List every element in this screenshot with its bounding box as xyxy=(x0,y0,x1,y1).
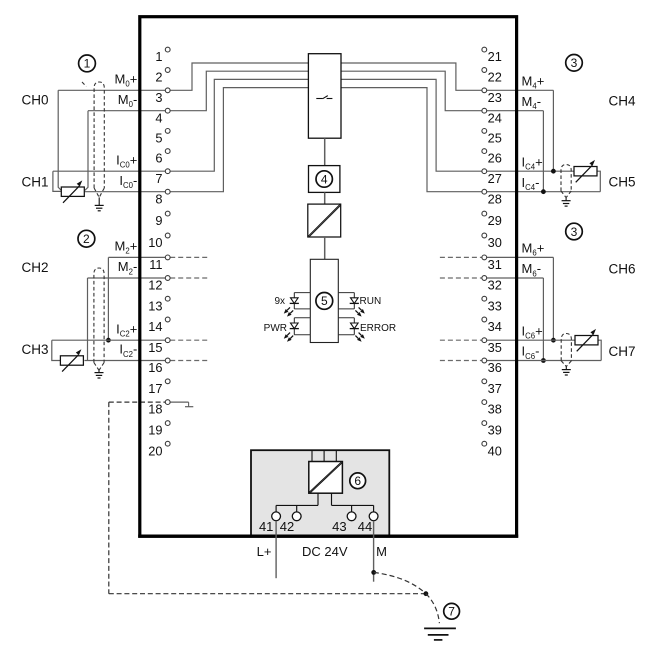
label DC 24V xyxy=(302,544,348,559)
wire M6- vertical to IC6- xyxy=(542,278,544,361)
wire M4- vertical to IC4- xyxy=(542,111,544,192)
circled note 2 xyxy=(78,230,95,247)
terminal 7 xyxy=(155,169,170,186)
wire M2- with dashed stub xyxy=(88,277,210,279)
svg-text:20: 20 xyxy=(148,443,162,458)
label CH1 xyxy=(22,174,49,189)
label IC6+ xyxy=(522,323,543,340)
terminal 28 xyxy=(482,189,502,206)
svg-text:41: 41 xyxy=(259,519,273,534)
module enclosure border xyxy=(140,17,517,536)
svg-text:CH4: CH4 xyxy=(609,93,636,108)
shield CH2/CH3 with ground xyxy=(94,268,104,378)
junction ground bus xyxy=(424,591,429,596)
svg-text:2: 2 xyxy=(83,232,90,246)
svg-text:2: 2 xyxy=(155,70,162,85)
wire terminal 18 dashed ground lead xyxy=(109,401,168,403)
svg-text:13: 13 xyxy=(148,298,162,313)
junction M4+/IC4+ xyxy=(551,169,556,174)
wire M2- vertical to IC2- xyxy=(87,278,89,361)
terminal 25 xyxy=(482,129,502,146)
terminal 2 xyxy=(155,68,170,85)
junction M2+/IC2+ xyxy=(106,338,111,343)
wire CH5 return loop xyxy=(597,171,600,192)
terminal 44 xyxy=(358,512,378,534)
wire IC2+ with dashed stub xyxy=(52,339,210,341)
svg-text:31: 31 xyxy=(488,257,502,272)
terminal 34 xyxy=(482,317,502,334)
svg-text:3: 3 xyxy=(155,90,162,105)
wire CH3 IC2+ sensor loop xyxy=(52,340,61,360)
svg-text:1: 1 xyxy=(155,49,162,64)
terminal 9 xyxy=(155,211,170,228)
wire M2+ with dashed stub xyxy=(108,256,209,258)
circled note 1 xyxy=(79,55,96,72)
terminal 23 xyxy=(482,88,502,105)
circled label 6 xyxy=(350,473,366,489)
LED ERROR xyxy=(338,318,365,342)
terminal 1 xyxy=(155,47,170,64)
wire IC0- terminal to multiplexer (lane 4 left) xyxy=(85,88,309,192)
svg-text:23: 23 xyxy=(488,90,502,105)
wire M4- multiplexer to terminal (lane 2 right) xyxy=(341,71,543,111)
wire M0+ terminal to multiplexer (lane 1 left) xyxy=(58,63,308,90)
terminal 6 xyxy=(155,149,170,166)
terminal 11 xyxy=(149,255,170,272)
terminal 19 xyxy=(148,421,170,438)
svg-text:32: 32 xyxy=(488,278,502,293)
svg-text:M2-: M2- xyxy=(118,259,138,276)
terminal 30 xyxy=(482,233,502,250)
module border bottom edge xyxy=(138,535,518,538)
terminal 16 xyxy=(148,358,170,375)
wire CH0 M0+ sensor lead xyxy=(58,90,61,190)
label M0- xyxy=(118,92,138,109)
svg-text:CH1: CH1 xyxy=(22,174,49,189)
terminal 32 xyxy=(482,276,502,293)
terminal 10 xyxy=(148,233,170,250)
svg-text:M6-: M6- xyxy=(522,261,542,278)
dashed ground bus vertical xyxy=(108,402,110,594)
DC/DC converter U3 xyxy=(309,450,343,493)
terminal 18 xyxy=(148,400,170,417)
label L+ xyxy=(257,544,272,559)
terminal 43 xyxy=(332,512,356,534)
LED PWR xyxy=(284,318,311,342)
wire A/D converter to block 5 xyxy=(324,237,326,259)
multiplexer U1 xyxy=(308,54,341,139)
svg-text:25: 25 xyxy=(488,131,502,146)
svg-text:5: 5 xyxy=(155,131,162,146)
label IC6- xyxy=(522,344,540,361)
A/D converter U2 xyxy=(308,204,341,237)
shield CH4/CH5 with ground xyxy=(561,165,571,207)
label M xyxy=(376,544,387,559)
LED group 9x xyxy=(284,293,311,317)
label IC4- xyxy=(522,175,540,192)
label M4+ xyxy=(522,74,545,91)
svg-text:36: 36 xyxy=(488,360,502,375)
label PWR xyxy=(264,323,287,334)
svg-text:4: 4 xyxy=(155,110,162,125)
switch contact inside multiplexer xyxy=(316,96,332,99)
wire IC6+ with dashed stub xyxy=(440,339,575,341)
wire M6+ with dashed stub xyxy=(440,256,554,258)
svg-text:29: 29 xyxy=(488,213,502,228)
svg-text:27: 27 xyxy=(488,171,502,186)
terminal 14 xyxy=(148,317,170,334)
svg-text:5: 5 xyxy=(321,294,328,308)
circled label 7 xyxy=(444,603,460,619)
label M6- xyxy=(522,261,542,278)
terminal 15 xyxy=(148,338,170,355)
wire IC0+ terminal to multiplexer (lane 3 left) xyxy=(53,79,309,171)
svg-text:34: 34 xyxy=(488,319,502,334)
circled note 3 lower xyxy=(566,223,583,240)
svg-text:7: 7 xyxy=(448,605,455,619)
label RUN xyxy=(360,296,382,307)
shield CH6/CH7 with ground xyxy=(561,334,571,376)
svg-text:40: 40 xyxy=(488,443,502,458)
svg-text:44: 44 xyxy=(358,519,372,534)
junction M6+/IC6+ xyxy=(551,338,556,343)
wire IC2- with dashed stub xyxy=(84,360,209,362)
svg-text:18: 18 xyxy=(148,402,162,417)
junction M wire to ground bus xyxy=(371,570,376,575)
svg-text:L+: L+ xyxy=(257,544,272,559)
svg-text:4: 4 xyxy=(321,172,328,186)
label ERROR xyxy=(360,323,396,334)
label CH7 xyxy=(609,344,636,359)
power supply section (gray box) xyxy=(251,450,389,536)
terminal 13 xyxy=(148,296,170,313)
svg-text:43: 43 xyxy=(332,519,346,534)
svg-text:10: 10 xyxy=(148,235,162,250)
svg-text:39: 39 xyxy=(488,423,502,438)
label M2+ xyxy=(115,239,138,256)
terminal 39 xyxy=(482,421,502,438)
svg-text:M: M xyxy=(376,544,387,559)
label M6+ xyxy=(522,241,545,258)
terminal 4 xyxy=(155,108,170,125)
svg-text:37: 37 xyxy=(488,381,502,396)
svg-text:26: 26 xyxy=(488,151,502,166)
terminal 35 xyxy=(482,338,502,355)
resistor CH7 sensor xyxy=(575,329,598,351)
terminal 31 xyxy=(482,255,502,272)
svg-text:CH5: CH5 xyxy=(609,174,636,189)
terminal 33 xyxy=(482,296,502,313)
wire multiplexer to block 4 xyxy=(324,138,326,165)
wire IC6- with dashed stub xyxy=(440,360,601,362)
terminal 40 xyxy=(482,441,502,458)
terminal 38 xyxy=(482,400,502,417)
wire CH1 IC0+ sensor loop xyxy=(53,171,61,191)
svg-text:19: 19 xyxy=(148,423,162,438)
svg-text:PWR: PWR xyxy=(264,323,287,334)
terminal 8 xyxy=(155,189,170,206)
svg-text:DC 24V: DC 24V xyxy=(302,544,348,559)
svg-text:6: 6 xyxy=(354,474,361,488)
terminal 27 xyxy=(482,169,502,186)
shield CH0/CH1 with ground xyxy=(82,82,104,211)
label CH3 xyxy=(22,342,49,357)
svg-text:22: 22 xyxy=(488,70,502,85)
terminal 42 xyxy=(280,512,301,534)
label IC0- xyxy=(119,173,137,190)
wire IC4- multiplexer to terminal (lane 4 right) xyxy=(341,88,600,192)
wire L+ supply xyxy=(275,521,277,579)
svg-text:M4-: M4- xyxy=(522,94,542,111)
label IC0+ xyxy=(116,152,137,169)
terminal 5 xyxy=(155,129,170,146)
svg-text:9x: 9x xyxy=(274,296,285,307)
svg-text:CH6: CH6 xyxy=(609,262,636,277)
label CH4 xyxy=(609,93,636,108)
terminal 26 xyxy=(482,149,502,166)
wire DC/DC to terminals 43/44 xyxy=(332,493,374,512)
label CH0 xyxy=(22,92,49,107)
svg-text:3: 3 xyxy=(571,56,578,70)
terminal 20 xyxy=(148,441,170,458)
label M4- xyxy=(522,94,542,111)
terminal 41 xyxy=(259,512,281,534)
LED RUN xyxy=(338,293,365,317)
svg-text:38: 38 xyxy=(488,402,502,417)
label CH6 xyxy=(609,262,636,277)
resistor CH3 sensor xyxy=(60,349,83,371)
label CH2 xyxy=(22,260,49,275)
wire terminal 18 internal stub with chassis mark xyxy=(170,402,193,407)
svg-text:30: 30 xyxy=(488,235,502,250)
svg-text:6: 6 xyxy=(155,151,162,166)
label M0+ xyxy=(115,72,138,89)
terminal 37 xyxy=(482,379,502,396)
svg-text:14: 14 xyxy=(148,319,162,334)
wire DC/DC to terminals 41/42 xyxy=(276,493,318,512)
svg-text:35: 35 xyxy=(488,340,502,355)
svg-text:ERROR: ERROR xyxy=(360,323,396,334)
wire M0- terminal to multiplexer (lane 2 left) xyxy=(88,71,308,111)
svg-text:CH7: CH7 xyxy=(609,344,636,359)
earth ground symbol xyxy=(424,628,456,640)
junction M6-/IC6- xyxy=(541,358,546,363)
svg-text:24: 24 xyxy=(488,110,502,125)
block 4 (ADC control) xyxy=(309,166,340,193)
svg-text:1: 1 xyxy=(84,57,91,71)
wire M6- with dashed stub xyxy=(440,277,544,279)
terminal 24 xyxy=(482,108,502,125)
resistor CH5 sensor xyxy=(574,160,597,182)
terminal 3 xyxy=(155,88,170,105)
block 5 (backplane interface) xyxy=(310,259,338,342)
terminal 21 xyxy=(482,47,502,64)
svg-text:3: 3 xyxy=(571,225,578,239)
terminal 36 xyxy=(482,358,502,375)
wire M4+ multiplexer to terminal (lane 1 right) xyxy=(341,63,553,90)
svg-text:CH3: CH3 xyxy=(22,342,49,357)
svg-text:42: 42 xyxy=(280,519,294,534)
terminal 22 xyxy=(482,68,502,85)
svg-text:17: 17 xyxy=(148,381,162,396)
wire CH0 M0- sensor lead xyxy=(85,111,88,191)
wire CH7 return loop xyxy=(598,340,601,360)
svg-text:RUN: RUN xyxy=(360,296,382,307)
svg-text:M0-: M0- xyxy=(118,92,138,109)
circled label 5 xyxy=(316,293,333,310)
wire IC4+ multiplexer to terminal (lane 3 right) xyxy=(341,79,574,171)
wire M6+ vertical to IC6+ xyxy=(552,257,554,340)
svg-text:CH0: CH0 xyxy=(22,92,49,107)
svg-text:16: 16 xyxy=(148,360,162,375)
svg-text:28: 28 xyxy=(488,191,502,206)
svg-text:33: 33 xyxy=(488,298,502,313)
label IC4+ xyxy=(522,154,543,171)
wire M2+ vertical to IC2+ xyxy=(107,257,109,340)
junction M4-/IC4- xyxy=(541,189,546,194)
svg-text:15: 15 xyxy=(148,340,162,355)
circled label 4 xyxy=(316,171,332,187)
circled note 3 upper xyxy=(566,55,583,72)
svg-text:7: 7 xyxy=(155,171,162,186)
dashed ground bus horizontal xyxy=(109,593,426,595)
svg-text:8: 8 xyxy=(155,191,162,206)
svg-text:21: 21 xyxy=(488,49,502,64)
label CH5 xyxy=(609,174,636,189)
wire M4+ vertical to IC4+ xyxy=(552,90,554,171)
dashed link M to ground bus xyxy=(374,572,426,593)
terminal 17 xyxy=(148,379,170,396)
svg-text:11: 11 xyxy=(149,257,162,272)
label IC2+ xyxy=(116,321,137,338)
label M2- xyxy=(118,259,138,276)
resistor CH1 sensor xyxy=(61,180,84,202)
label IC2- xyxy=(119,342,137,359)
wire M supply xyxy=(373,521,375,582)
label 9x xyxy=(274,296,285,307)
svg-text:9: 9 xyxy=(155,213,162,228)
svg-text:12: 12 xyxy=(148,278,162,293)
terminal 12 xyxy=(148,276,170,293)
dashed link ground bus to earth xyxy=(426,594,440,624)
terminal 29 xyxy=(482,211,502,228)
wire block 4 to A/D converter xyxy=(324,192,326,204)
svg-text:CH2: CH2 xyxy=(22,260,49,275)
